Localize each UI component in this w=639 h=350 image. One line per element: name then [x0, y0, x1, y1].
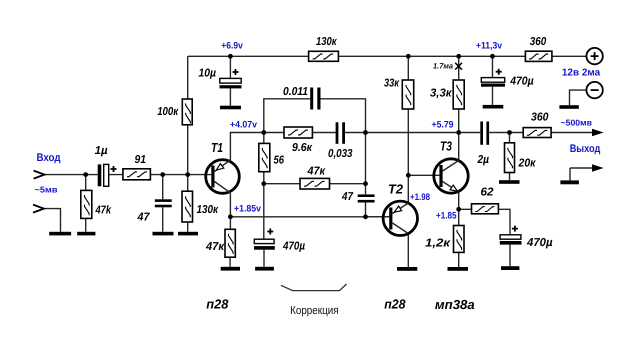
wire output lower terminal [570, 168, 592, 180]
node after 91 [160, 172, 165, 177]
node T3 collector [456, 130, 461, 135]
svg-text:~500мв: ~500мв [561, 117, 593, 127]
wire T3 emitter down with 1.2k [458, 192, 460, 267]
node loop right on mid rail [363, 130, 368, 135]
svg-text:360: 360 [531, 112, 549, 124]
wire T2 collector to ground [407, 234, 409, 268]
ground minus terminal [559, 105, 578, 109]
wire 62 row to 470u bottom right [459, 209, 510, 266]
svg-text:0,033: 0,033 [328, 148, 353, 160]
resistor 20k [505, 143, 515, 173]
svg-text:100к: 100к [157, 106, 179, 118]
ground 47k input [77, 232, 95, 236]
ground T2 collector [397, 267, 417, 271]
ground 470u top [483, 105, 504, 109]
current break cross 1.7ma [455, 63, 462, 70]
svg-text:1,2к: 1,2к [425, 238, 451, 250]
svg-text:33к: 33к [384, 78, 400, 90]
node +4.07v [261, 130, 266, 135]
svg-text:360: 360 [530, 36, 547, 48]
svg-text:0.011: 0.011 [283, 86, 308, 98]
wire 47k emitter resistor to ground [229, 257, 231, 267]
node +6.9v [228, 54, 233, 59]
wire 0.011 feedback loop [264, 99, 366, 133]
svg-text:п28: п28 [206, 297, 229, 312]
ground input 2 [49, 232, 71, 236]
svg-text:47: 47 [341, 191, 353, 203]
wire T2 emitter up to node [407, 175, 409, 203]
svg-text:1µ: 1µ [95, 145, 108, 157]
wire loop right vertical with 47 cap [365, 133, 367, 217]
wire T1 collector down and to T2 base [230, 193, 389, 230]
svg-text:~5мв: ~5мв [35, 185, 58, 195]
correction bracket [281, 284, 347, 291]
svg-text:Коррекция: Коррекция [290, 305, 339, 317]
node output coupling [507, 130, 512, 135]
svg-text:+5.79: +5.79 [432, 119, 454, 130]
resistor 56 [259, 143, 270, 171]
resistor 360 bottom [523, 128, 551, 138]
resistor 33k [402, 80, 413, 109]
wire 56 branch and 470u left branch [263, 133, 265, 267]
wire minus terminal to ground [570, 90, 587, 105]
svg-text:T1: T1 [211, 140, 223, 155]
wire T3 collector up [458, 133, 460, 161]
svg-text:12в 2ма: 12в 2ма [562, 67, 601, 78]
resistor 62 [472, 204, 499, 214]
ground 20k [499, 180, 520, 184]
svg-text:п28: п28 [384, 297, 406, 312]
capacitor 470u top electrolytic [481, 78, 504, 83]
wire 3.3k collector load branch [458, 56, 460, 132]
ground 470u left [255, 267, 274, 271]
input terminal lower [33, 205, 44, 213]
node 3.3k top [456, 54, 461, 59]
wire 47 cap shunt branch [162, 175, 164, 232]
resistor 130k top [309, 51, 339, 61]
wire 130k bias lower branch to ground [187, 175, 189, 232]
wire T1 emitter up and +4.07v rail [230, 133, 592, 162]
svg-text:56: 56 [274, 155, 285, 167]
svg-text:47k: 47k [95, 205, 112, 217]
node T1 collector [228, 214, 233, 219]
output arrow lower [592, 164, 604, 171]
ground 470u bottom right [501, 266, 519, 270]
svg-text:47: 47 [137, 212, 150, 224]
resistor 1.2k [454, 226, 465, 253]
capacitor 470u left electrolytic [254, 239, 274, 243]
transistor T3 [434, 159, 468, 193]
ground 47k T1 [221, 267, 240, 271]
svg-text:+1.85: +1.85 [436, 211, 457, 222]
resistor 130k vertical [182, 191, 193, 222]
svg-text:1.7ма: 1.7ма [433, 62, 454, 71]
capacitor 1u electrolytic [98, 164, 102, 186]
node 47 cap bottom [363, 214, 368, 219]
svg-text:47к: 47к [205, 241, 225, 253]
svg-text:91: 91 [135, 154, 147, 166]
capacitor 2u [480, 122, 483, 145]
input terminal upper [34, 171, 45, 179]
svg-text:20к: 20к [518, 158, 537, 170]
wire 33k branch down to T3 base node [407, 56, 409, 175]
battery minus terminal [586, 82, 602, 98]
resistor 3.3k [453, 80, 464, 109]
svg-text:+1.85v: +1.85v [234, 203, 262, 214]
node 33k top [406, 54, 411, 59]
resistor 9.6k [284, 127, 312, 138]
svg-text:2µ: 2µ [477, 154, 490, 166]
ground 130k [178, 232, 198, 236]
svg-text:Вход: Вход [37, 152, 61, 164]
wire T3 base [408, 174, 439, 176]
svg-text:130к: 130к [316, 36, 337, 48]
svg-text:+11,3v: +11,3v [476, 40, 503, 51]
svg-text:T2: T2 [388, 182, 404, 197]
wire 470u top cap branch [492, 56, 494, 105]
svg-text:470µ: 470µ [282, 241, 305, 253]
wire second input terminal to ground [44, 209, 61, 232]
svg-text:470µ: 470µ [526, 237, 553, 249]
node T3 emitter [456, 207, 461, 212]
svg-text:+1.98: +1.98 [410, 192, 430, 203]
svg-text:3,3к: 3,3к [430, 88, 453, 100]
wire input row [45, 174, 212, 176]
wire 47k horizontal row [264, 183, 366, 185]
wire T2 base [366, 216, 390, 218]
wire top supply rail [188, 55, 587, 57]
capacitor 0.033 [336, 122, 339, 144]
capacitor 10u electrolytic [220, 78, 241, 83]
ground 47 cap [153, 232, 174, 236]
svg-text:+6.9v: +6.9v [221, 40, 243, 51]
svg-text:10µ: 10µ [199, 68, 217, 80]
transistor T1 [206, 160, 240, 194]
svg-text:470µ: 470µ [509, 76, 534, 88]
wire 20k branch [509, 133, 511, 181]
resistor 100k [182, 99, 192, 125]
transistor T2 [383, 201, 417, 235]
node input [83, 172, 88, 177]
capacitor 0.011 [310, 88, 313, 110]
svg-text:+4.07v: +4.07v [230, 120, 258, 131]
resistor 360 top [525, 51, 552, 61]
resistor 47k horizontal [300, 178, 330, 189]
node T1 base [185, 172, 190, 177]
node T3 base / T2 emitter [406, 173, 411, 178]
svg-text:9.6к: 9.6к [292, 142, 313, 154]
output arrow upper [592, 129, 604, 136]
ground 10u [220, 106, 241, 110]
svg-text:62: 62 [481, 187, 495, 199]
svg-text:130к: 130к [197, 204, 219, 216]
wire 10u cap branch [229, 56, 231, 105]
resistor 47k T1 emitter [225, 229, 235, 257]
resistor 47k input [81, 190, 92, 218]
svg-text:мп38а: мп38а [435, 297, 475, 312]
node 56 bottom [261, 181, 266, 186]
svg-text:T3: T3 [440, 138, 453, 153]
svg-text:Выход: Выход [570, 143, 601, 155]
capacitor 47 input [155, 199, 172, 202]
ground output terminal [560, 180, 579, 184]
svg-text:47к: 47к [307, 166, 327, 178]
resistor 91 [123, 169, 150, 180]
capacitor 470u bottom right electrolytic [500, 235, 521, 239]
wire 100k branch from top rail down to T1 base node [187, 56, 189, 174]
battery plus terminal [586, 48, 602, 64]
capacitor 47 loop [358, 194, 375, 197]
node 47k right [363, 181, 368, 186]
wire 47k input shunt branch [85, 175, 87, 232]
ground 1.2k [448, 267, 469, 271]
node +11.3v [490, 54, 495, 59]
